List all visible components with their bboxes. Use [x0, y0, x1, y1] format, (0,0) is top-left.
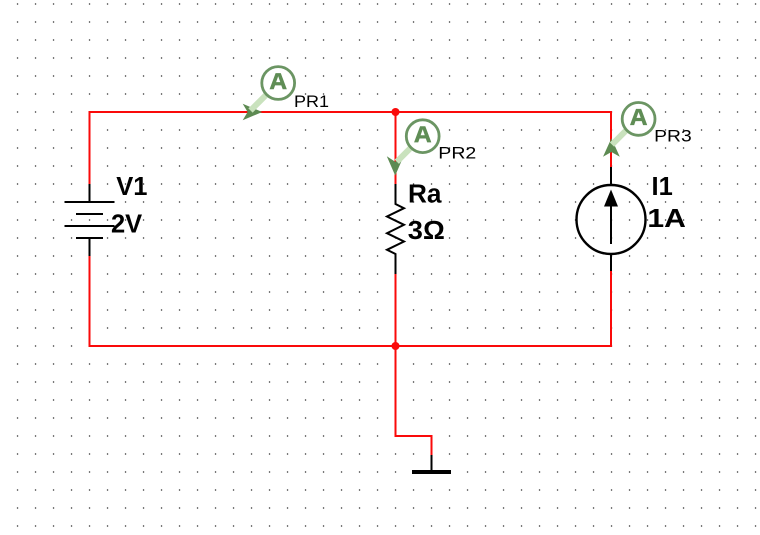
wire ground branch — [396, 346, 432, 455]
svg-text:V1: V1 — [116, 173, 147, 201]
svg-text:3Ω: 3Ω — [408, 217, 445, 245]
battery V1 — [65, 184, 115, 256]
svg-text:2V: 2V — [111, 211, 142, 239]
wire middle branch: resistor bottom to bottom junction — [395, 274, 397, 346]
current source I1 — [577, 167, 646, 271]
svg-text:1A: 1A — [647, 205, 686, 233]
svg-text:I1: I1 — [652, 173, 673, 201]
wire middle branch: top junction down to resistor — [395, 112, 397, 184]
wire top: left corner to right corner — [90, 112, 612, 184]
node junction top — [392, 108, 400, 116]
svg-text:PR1: PR1 — [294, 92, 329, 111]
svg-text:Ra: Ra — [408, 181, 442, 209]
ammeter probe PR2 — [387, 120, 439, 176]
wire bottom: left corner to right corner — [90, 256, 612, 346]
svg-text:PR2: PR2 — [438, 144, 476, 163]
ground — [412, 455, 451, 474]
svg-text:PR3: PR3 — [654, 127, 692, 146]
ammeter probe PR1 — [243, 67, 295, 121]
node junction bottom — [392, 342, 400, 350]
ammeter probe PR3 — [603, 103, 655, 157]
resistor Ra — [387, 184, 404, 274]
